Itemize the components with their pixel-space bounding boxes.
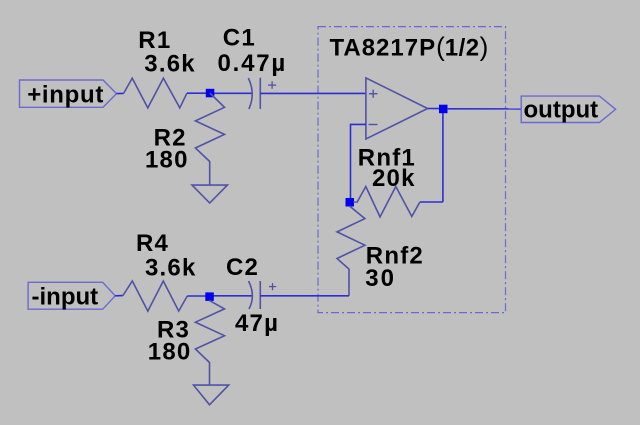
wire Rnf1 to feedback vertical xyxy=(420,201,443,203)
wire op-amp output to node C xyxy=(428,108,443,110)
node C junction xyxy=(439,105,448,114)
wire R4 to node D xyxy=(187,295,209,297)
port -input xyxy=(28,282,115,310)
node A junction xyxy=(206,89,215,98)
label R4 value 3.6k xyxy=(145,255,197,282)
label R2 value 180 xyxy=(145,147,189,174)
dash-dot IC boundary box xyxy=(318,27,506,313)
wire feedback vertical from output node C xyxy=(442,109,444,202)
wire node A to C1 xyxy=(210,92,252,94)
wire +input tip to R1 xyxy=(117,92,124,94)
op-amp U1 xyxy=(366,78,428,139)
wire C1 to op-amp non-inverting input xyxy=(260,92,366,94)
label R2 xyxy=(154,124,187,151)
label C2 xyxy=(226,254,259,281)
port output xyxy=(521,96,615,123)
label R3 value 180 xyxy=(148,338,192,365)
ground G2 xyxy=(194,385,229,405)
svg-text:C2: C2 xyxy=(226,254,259,281)
wire op-amp inverting input to node B xyxy=(351,124,366,202)
wire node D to C2 xyxy=(209,295,252,297)
svg-text:30: 30 xyxy=(365,265,396,292)
capacitor C1 xyxy=(248,78,276,109)
svg-text:47µ: 47µ xyxy=(235,310,279,337)
svg-text:0.47µ: 0.47µ xyxy=(218,50,288,77)
svg-text:TA8217P(1/2): TA8217P(1/2) xyxy=(330,32,490,62)
label C2 value 47µ xyxy=(235,310,279,337)
label R1 xyxy=(138,27,171,54)
label C1 xyxy=(223,25,256,52)
wire node C to output port xyxy=(447,108,521,110)
label U1 TA8217P(1/2) xyxy=(330,32,490,62)
label C1 value 0.47µ xyxy=(218,50,288,77)
label R4 xyxy=(136,230,169,257)
ground G1 xyxy=(192,185,227,203)
svg-text:20k: 20k xyxy=(372,165,416,192)
wire R1 to node A xyxy=(187,92,210,94)
resistor Rnf1 xyxy=(354,187,420,217)
node B junction xyxy=(346,198,355,207)
label Rnf2 value 30 xyxy=(365,265,396,292)
label R3 xyxy=(157,317,190,344)
svg-text:-input: -input xyxy=(32,284,99,311)
resistor R2 xyxy=(195,93,224,185)
svg-text:R4: R4 xyxy=(136,230,169,257)
svg-text:output: output xyxy=(524,96,599,123)
label Rnf1 value 20k xyxy=(372,165,416,192)
resistor R4 xyxy=(123,281,187,311)
node D junction xyxy=(205,292,214,301)
resistor R1 xyxy=(124,78,187,108)
label R1 value 3.6k xyxy=(144,51,196,78)
svg-text:3.6k: 3.6k xyxy=(145,255,197,282)
svg-text:180: 180 xyxy=(145,147,189,174)
svg-text:3.6k: 3.6k xyxy=(144,51,196,78)
capacitor C2 xyxy=(249,281,277,309)
resistor R3 xyxy=(195,300,224,385)
wire C2 to Rnf2 bottom xyxy=(260,295,349,297)
resistor Rnf2 xyxy=(337,206,365,296)
svg-text:C1: C1 xyxy=(223,25,256,52)
label Rnf1 xyxy=(358,145,416,172)
label Rnf2 xyxy=(366,242,424,269)
svg-text:+input: +input xyxy=(27,81,104,108)
wire -input tip to R4 xyxy=(115,295,123,297)
port +input xyxy=(20,80,117,108)
svg-text:180: 180 xyxy=(148,338,192,365)
